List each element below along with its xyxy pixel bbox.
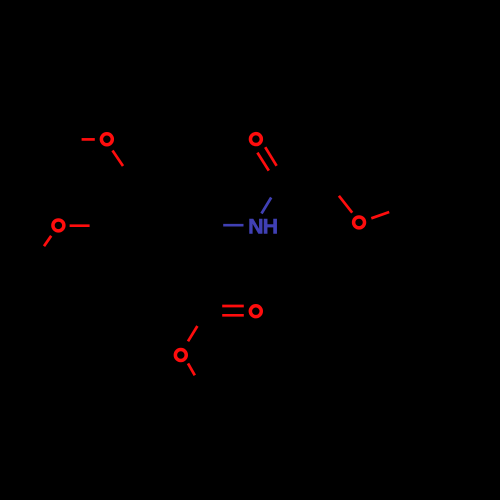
node: top methoxy oxygen O: [101, 134, 112, 145]
wire: ester C=O double bond line 2 (red half, lower): [222, 314, 244, 317]
wire: ester O-CH3 bond (red half, down-right): [188, 363, 195, 375]
wire: amide N-C(=O) bond (blue half, diagonal): [262, 198, 272, 214]
wire: amide C=O double bond line 1 (red half): [257, 153, 268, 171]
wire: ester C=O double bond line 1 (red half, upper): [222, 305, 244, 308]
node: amide carbonyl oxygen O: [250, 134, 261, 145]
node: ester oxygen O: [175, 350, 186, 361]
wire: top methoxy O-ring bond (red half, diagonal): [113, 151, 124, 167]
svg-text:H: H: [263, 215, 278, 239]
node: left methoxy oxygen O: [53, 220, 64, 231]
wire: ester O-C(=O) bond (red half, up-right): [188, 326, 197, 341]
node: ester carbonyl oxygen O: [250, 306, 261, 317]
node: furan ring oxygen O: [354, 217, 365, 228]
svg-text:N: N: [248, 215, 263, 239]
wire: amide C=O double bond line 2 (red half): [265, 147, 276, 166]
wire: amide N-ring bond (blue half, horizontal): [223, 224, 243, 227]
wire: top methoxy C-O bond (red half, horizontal): [82, 138, 95, 141]
wire: furan O-C5 bond (red half, up-right): [371, 212, 389, 218]
wire: furan O-C2 bond (red half, up-left): [339, 196, 352, 213]
wire: left methoxy O-ring bond (red half, horizontal): [70, 224, 90, 227]
wire: left methoxy C-O bond (red half, diagonal): [44, 236, 51, 246]
